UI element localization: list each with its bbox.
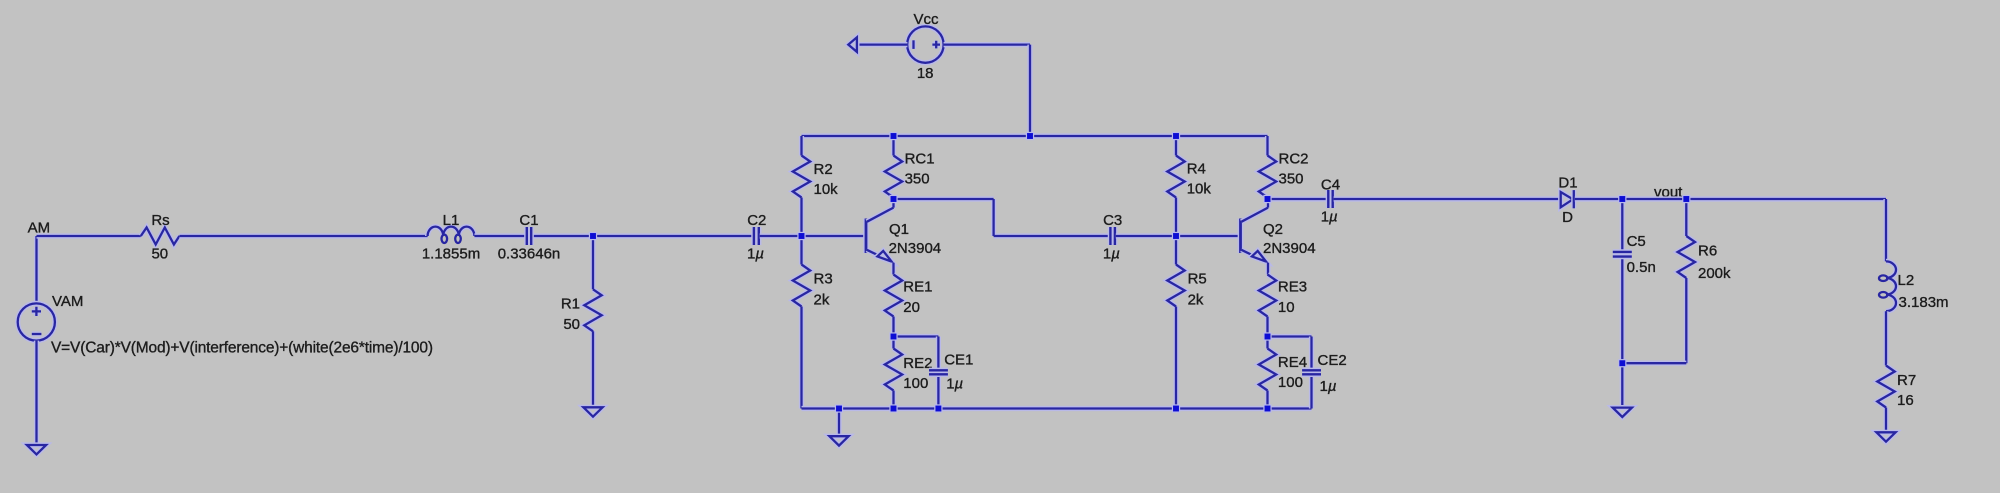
value 3.183m (L2) <box>1899 294 1949 311</box>
wire AM horizontal <box>37 233 141 238</box>
value 2N3904 (Q1) <box>889 240 942 257</box>
node R4/R5/base2 <box>1172 232 1180 240</box>
value 1.1855m (L1) <box>422 246 480 263</box>
resistor R5 <box>1167 236 1184 409</box>
node RE2 bottom <box>889 404 897 412</box>
label R7 <box>1897 372 1916 389</box>
wire top rail <box>802 133 1268 138</box>
label D1 <box>1558 174 1577 191</box>
value 1µ (CE1) <box>946 376 963 393</box>
capacitor CE1 <box>929 337 948 409</box>
resistor RE3 <box>1259 275 1276 337</box>
value 10k (R4) <box>1187 181 1212 198</box>
resistor RE4 <box>1259 337 1276 409</box>
node C5 bottom <box>1618 359 1626 367</box>
label RE2 <box>903 355 932 372</box>
capacitor C1 <box>527 227 531 245</box>
node RC1 top rail <box>889 132 897 140</box>
svg-text:V=V(Car)*V(Mod)+V(interference: V=V(Car)*V(Mod)+V(interference)+(white(2… <box>51 340 433 357</box>
svg-text:Q2: Q2 <box>1263 221 1283 238</box>
svg-text:R6: R6 <box>1698 243 1717 260</box>
node Vcc rail <box>1026 132 1034 140</box>
label RE1 <box>903 279 932 296</box>
svg-text:200k: 200k <box>1698 265 1731 282</box>
svg-text:2k: 2k <box>1188 292 1204 309</box>
value 50 (Rs) <box>151 246 168 263</box>
svg-text:RE2: RE2 <box>903 355 932 372</box>
wire L1 to C1 <box>474 233 593 238</box>
svg-text:RE3: RE3 <box>1278 279 1307 296</box>
svg-text:R3: R3 <box>814 271 833 288</box>
value D (D1) <box>1562 209 1573 226</box>
ground R1 <box>583 407 602 416</box>
svg-text:VAM: VAM <box>52 293 83 310</box>
resistor R3 <box>793 236 810 409</box>
capacitor C5 <box>1613 199 1632 363</box>
capacitor C3 <box>1110 227 1115 245</box>
svg-text:C4: C4 <box>1321 177 1340 194</box>
value 350 (RC1) <box>905 171 930 188</box>
value 100 (RE2) <box>903 375 928 392</box>
svg-text:0.5n: 0.5n <box>1627 259 1656 276</box>
wire node to C2 <box>593 233 760 238</box>
svg-text:3.183m: 3.183m <box>1899 294 1949 311</box>
node RE3/RE4/CE2 <box>1263 332 1271 340</box>
value 1µ (C4) <box>1321 209 1338 226</box>
svg-text:16: 16 <box>1897 392 1914 409</box>
label R3 <box>814 271 833 288</box>
value 200k (R6) <box>1698 265 1731 282</box>
resistor R7 <box>1877 366 1894 433</box>
capacitor C2 <box>754 227 759 245</box>
svg-text:1µ: 1µ <box>1321 209 1338 226</box>
svg-text:L1: L1 <box>443 212 460 229</box>
voltage source VAM <box>18 303 55 340</box>
resistor R1 <box>584 236 601 407</box>
value 16 (R7) <box>1897 392 1914 409</box>
svg-text:20: 20 <box>903 299 920 316</box>
value 1µ (C3) <box>1103 246 1120 263</box>
capacitor C4 <box>1328 190 1332 208</box>
value 50 (R1) <box>563 316 580 333</box>
value 10 (RE3) <box>1278 299 1295 316</box>
label C3 <box>1103 212 1122 229</box>
wire RC2 to C4 <box>1268 196 1333 201</box>
node rail ground <box>835 404 843 412</box>
wire CE2 top <box>1268 334 1312 339</box>
ground R7 <box>1876 432 1895 441</box>
svg-text:10k: 10k <box>1187 181 1212 198</box>
label CE1 <box>944 352 973 369</box>
resistor R6 <box>1678 199 1695 363</box>
svg-text:CE2: CE2 <box>1318 352 1347 369</box>
label L1 <box>443 212 460 229</box>
wire vout <box>1622 196 1686 201</box>
wire vout to L2 <box>1686 196 1886 201</box>
svg-text:350: 350 <box>1279 171 1304 188</box>
svg-text:350: 350 <box>905 171 930 188</box>
voltage source Vcc <box>907 26 943 62</box>
svg-text:50: 50 <box>563 316 580 333</box>
node C5 top <box>1618 195 1626 203</box>
label CE2 <box>1318 352 1347 369</box>
svg-text:1µ: 1µ <box>1320 378 1337 395</box>
ground VAM <box>27 445 46 454</box>
capacitor CE2 <box>1302 337 1321 409</box>
value 350 (RC2) <box>1279 171 1304 188</box>
svg-text:10k: 10k <box>814 181 839 198</box>
node AM label <box>28 220 50 237</box>
wire Vcc right <box>944 42 1030 47</box>
svg-text:R5: R5 <box>1188 271 1207 288</box>
transistor Q1 <box>866 199 894 263</box>
resistor Rs <box>141 228 180 245</box>
node CE1 bottom <box>934 404 942 412</box>
resistor RC1 <box>885 136 902 199</box>
label R2 <box>814 161 833 178</box>
svg-text:C2: C2 <box>747 212 766 229</box>
value 20 (RE1) <box>903 299 920 316</box>
label VAM <box>52 293 83 310</box>
svg-text:R4: R4 <box>1187 161 1206 178</box>
value 2k (R5) <box>1188 292 1204 309</box>
svg-text:C1: C1 <box>519 212 538 229</box>
svg-text:2k: 2k <box>814 292 830 309</box>
label R6 <box>1698 243 1717 260</box>
svg-text:Q1: Q1 <box>889 221 909 238</box>
svg-text:L2: L2 <box>1898 272 1915 289</box>
diode D1 <box>1561 190 1574 208</box>
wire CE1 top <box>894 334 939 339</box>
label R1 <box>561 295 580 312</box>
label Rs <box>151 212 169 229</box>
svg-text:RC2: RC2 <box>1279 151 1309 168</box>
svg-text:2N3904: 2N3904 <box>889 240 942 257</box>
value V=V(Car)... <box>51 340 433 357</box>
value 1µ (C2) <box>747 246 764 263</box>
wire L2 to R7 <box>1883 311 1888 365</box>
label RC1 <box>905 151 935 168</box>
svg-text:1µ: 1µ <box>747 246 764 263</box>
label vout <box>1654 184 1683 201</box>
svg-text:1.1855m: 1.1855m <box>422 246 480 263</box>
svg-text:D1: D1 <box>1558 174 1577 191</box>
node junction C1/R1 <box>589 232 597 240</box>
svg-text:R7: R7 <box>1897 372 1916 389</box>
wire C5 ground stem <box>1620 363 1625 407</box>
ground rail <box>829 436 848 445</box>
wire emitter Q2 <box>1265 263 1270 275</box>
label Q1 <box>889 221 909 238</box>
node R6 top <box>1682 195 1690 203</box>
svg-text:RC1: RC1 <box>905 151 935 168</box>
inductor L1 <box>428 227 475 243</box>
resistor RE1 <box>885 275 902 337</box>
node collector Q1 <box>889 195 897 203</box>
svg-text:C3: C3 <box>1103 212 1122 229</box>
label RE3 <box>1278 279 1307 296</box>
value 0.5n (C5) <box>1627 259 1656 276</box>
svg-text:R2: R2 <box>814 161 833 178</box>
svg-text:Rs: Rs <box>151 212 169 229</box>
svg-text:1µ: 1µ <box>1103 246 1120 263</box>
svg-text:2N3904: 2N3904 <box>1263 240 1316 257</box>
svg-text:CE1: CE1 <box>944 352 973 369</box>
node R5 bottom <box>1172 404 1180 412</box>
label C2 <box>747 212 766 229</box>
wire VAM to ground <box>34 341 39 445</box>
node RE1/RE2/CE1 <box>889 332 897 340</box>
wire C3 to node <box>1116 233 1240 238</box>
svg-text:R1: R1 <box>561 295 580 312</box>
label C1 <box>519 212 538 229</box>
label R5 <box>1188 271 1207 288</box>
wire C2 to base node <box>760 233 865 238</box>
value 2N3904 (Q2) <box>1263 240 1316 257</box>
resistor R2 <box>793 136 810 236</box>
label RC2 <box>1279 151 1309 168</box>
label C5 <box>1627 233 1646 250</box>
value 1µ (CE2) <box>1320 378 1337 395</box>
ground C5 <box>1613 408 1632 417</box>
wire C5-R6 bottom <box>1622 361 1686 366</box>
svg-text:10: 10 <box>1278 299 1295 316</box>
wire Vcc left <box>858 42 908 47</box>
value 0.33646n (C1) <box>498 246 561 263</box>
wire collector link <box>894 199 1116 236</box>
value 18 (Vcc) <box>917 65 934 82</box>
wire D1 to C5 <box>1575 196 1623 201</box>
svg-text:100: 100 <box>903 375 928 392</box>
label Q2 <box>1263 221 1283 238</box>
svg-text:RE1: RE1 <box>903 279 932 296</box>
label Vcc <box>913 11 939 28</box>
wire Vcc down <box>1027 45 1032 136</box>
resistor RE2 <box>885 337 902 409</box>
svg-text:C5: C5 <box>1627 233 1646 250</box>
node collector Q2 <box>1263 195 1271 203</box>
wire Rs to L1 <box>179 233 427 238</box>
wire ground stem <box>836 409 841 437</box>
label C4 <box>1321 177 1340 194</box>
transistor Q2 <box>1241 199 1269 263</box>
value 100 (RE4) <box>1278 374 1303 391</box>
svg-text:1µ: 1µ <box>946 376 963 393</box>
wire bottom rail <box>802 406 1312 411</box>
wire AM vertical <box>34 236 39 303</box>
ground Vcc <box>848 37 857 52</box>
inductor L2 <box>1879 261 1896 311</box>
wire emitter Q1 <box>891 263 896 275</box>
resistor R4 <box>1167 136 1184 236</box>
svg-text:18: 18 <box>917 65 934 82</box>
svg-text:100: 100 <box>1278 374 1303 391</box>
node RE4 bottom <box>1263 404 1271 412</box>
label L2 <box>1898 272 1915 289</box>
wire L2 top <box>1883 199 1888 261</box>
svg-text:50: 50 <box>151 246 168 263</box>
svg-text:Vcc: Vcc <box>913 11 939 28</box>
label R4 <box>1187 161 1206 178</box>
resistor RC2 <box>1259 136 1276 199</box>
wire C4 to D1 <box>1334 196 1560 201</box>
node junction R2/R3/base <box>797 232 805 240</box>
svg-text:0.33646n: 0.33646n <box>498 246 561 263</box>
value 10k (R2) <box>814 181 839 198</box>
node R4 top rail <box>1172 132 1180 140</box>
label RE4 <box>1278 354 1307 371</box>
value 2k (R3) <box>814 292 830 309</box>
svg-text:D: D <box>1562 209 1573 226</box>
